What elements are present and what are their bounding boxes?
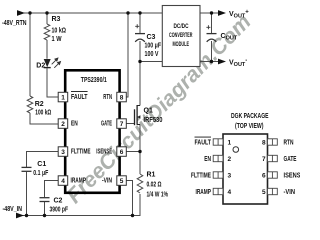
IC U1 TPS2390/1 hot-swap controller body: [65, 70, 119, 193]
svg-text:0.02 Ω: 0.02 Ω: [147, 182, 162, 189]
pin 5 box: [117, 176, 127, 186]
wire R3 to D2: [46, 40, 48, 59]
svg-text:IRF530: IRF530: [144, 117, 163, 124]
svg-text:2: 2: [61, 121, 65, 128]
resistor R1: [137, 174, 143, 193]
wire R3 branch top lead: [46, 13, 48, 24]
DC/DC converter module U2: [162, 6, 200, 67]
capacitor C2: [40, 198, 50, 202]
package pin stub left 2: [213, 155, 223, 161]
svg-text:1/4 W 1%: 1/4 W 1%: [147, 192, 169, 199]
pin 3 box: [58, 147, 67, 157]
svg-text:EN: EN: [71, 120, 78, 127]
wire C1 bottom lead: [26, 172, 28, 216]
svg-text:GATE: GATE: [284, 156, 297, 163]
capacitor C3 polarized: [135, 24, 145, 42]
wire C3 top lead: [139, 13, 141, 33]
svg-text:RTN: RTN: [284, 140, 294, 147]
svg-text:C1: C1: [37, 161, 46, 168]
svg-text:3: 3: [228, 173, 232, 180]
value label C1: [33, 161, 49, 177]
pin 1 box: [58, 92, 67, 102]
node -48V_RTN arrow: [17, 10, 25, 16]
value label R3: [52, 16, 67, 43]
value label C2: [50, 198, 69, 214]
package pin stub right 8: [268, 139, 278, 145]
svg-text:R2: R2: [35, 101, 44, 108]
svg-text:R3: R3: [52, 16, 61, 23]
value label R2: [35, 101, 52, 116]
svg-text:2: 2: [228, 156, 232, 163]
svg-text:DC/DC: DC/DC: [174, 23, 189, 30]
node -48V_IN arrow: [16, 213, 24, 219]
svg-text:VOUT-: VOUT-: [229, 58, 247, 68]
package pin stub left 4: [213, 188, 223, 194]
svg-text:DGK PACKAGE: DGK PACKAGE: [231, 113, 269, 120]
node rail-R3: [45, 11, 48, 14]
wire pin 7 to Q1 gate: [126, 123, 134, 125]
svg-text:EN: EN: [204, 156, 211, 163]
wire top rail -48V_RTN: [17, 12, 162, 14]
svg-text:IRAMP: IRAMP: [196, 189, 212, 196]
package pin stub left 1: [213, 139, 223, 145]
pin 2 box: [58, 119, 67, 129]
svg-text:6: 6: [120, 149, 124, 156]
svg-text:RTN: RTN: [103, 94, 112, 101]
wire pin 8 riser to top rail: [126, 13, 128, 97]
wire pin 3 to C1: [27, 152, 59, 168]
svg-text:6: 6: [262, 173, 266, 180]
resistor R3: [44, 24, 50, 40]
svg-text:3900 pF: 3900 pF: [50, 207, 69, 214]
svg-text:CONVERTER: CONVERTER: [169, 32, 193, 39]
pin 1 indicator circle: [233, 147, 239, 153]
svg-text:4: 4: [228, 189, 232, 196]
node sense: [138, 150, 141, 153]
svg-text:-VIN: -VIN: [284, 189, 296, 196]
wire C3 bottom to module: [140, 41, 162, 62]
svg-text:10 kΩ: 10 kΩ: [52, 28, 67, 35]
node VIN-rail: [131, 214, 134, 217]
svg-text:5: 5: [120, 178, 124, 185]
wire D2 to pin 1: [47, 68, 58, 97]
wire pin 4 to C2: [45, 181, 59, 198]
wire C2 bottom lead: [44, 202, 46, 216]
wire R1 top lead: [139, 152, 141, 175]
svg-text:3: 3: [61, 149, 65, 156]
pin label FAULT: [71, 91, 88, 100]
svg-text:MODULE: MODULE: [173, 41, 190, 48]
svg-text:C3: C3: [147, 34, 156, 41]
svg-text:-48V_IN: -48V_IN: [3, 206, 23, 213]
node rail-R2: [28, 11, 31, 14]
resistor R2: [27, 96, 33, 113]
svg-text:1 W: 1 W: [52, 36, 62, 43]
svg-text:(TOP VIEW): (TOP VIEW): [235, 123, 264, 130]
wire Cout top lead: [211, 13, 213, 33]
svg-text:100 μF: 100 μF: [145, 43, 162, 50]
node VOUT- arrow: [218, 59, 226, 65]
node rail-C3: [138, 11, 141, 14]
svg-text:Q1: Q1: [144, 108, 153, 115]
svg-text:1: 1: [228, 140, 232, 147]
transistor Q1 IRF530: [135, 105, 141, 125]
svg-text:4: 4: [61, 178, 65, 185]
package pin stub right 7: [268, 155, 278, 161]
pin 8 box: [117, 92, 127, 102]
wire Q1 source lead: [139, 125, 141, 152]
svg-text:100 V: 100 V: [145, 51, 159, 58]
svg-text:-VIN: -VIN: [102, 177, 112, 184]
wire pin 5 to bottom rail: [126, 181, 132, 216]
svg-text:FLTTIME: FLTTIME: [71, 148, 91, 155]
svg-text:ISENS: ISENS: [284, 173, 301, 180]
svg-text:1: 1: [61, 94, 65, 101]
wire bottom rail -48V_IN: [17, 215, 141, 217]
value label R1: [147, 172, 169, 199]
capacitor C1: [22, 167, 32, 171]
svg-text:ISENSE: ISENSE: [96, 148, 112, 155]
node C2-rail: [43, 214, 46, 217]
node Cout top: [210, 11, 213, 14]
value label Q1: [144, 108, 163, 125]
svg-text:IRAMP: IRAMP: [71, 177, 87, 184]
package body: [223, 134, 268, 204]
svg-text:FAULT: FAULT: [195, 140, 212, 147]
pin 7 box: [117, 119, 127, 129]
package pin stub right 6: [268, 172, 278, 178]
svg-text:R1: R1: [147, 172, 156, 179]
node rail-RTN: [126, 11, 129, 14]
svg-text:100 kΩ: 100 kΩ: [35, 109, 51, 116]
wire R1 bottom lead: [139, 194, 141, 216]
capacitor Cout polarized: [206, 25, 216, 42]
svg-text:TPS2390/1: TPS2390/1: [81, 77, 107, 84]
package pin stub left 3: [213, 172, 223, 178]
wire Cout bottom lead: [211, 41, 213, 62]
svg-text:8: 8: [120, 94, 124, 101]
wire module out top to VOUT+: [199, 12, 219, 14]
package label FAULT: [195, 137, 212, 146]
wire pin 6 to node: [126, 151, 140, 153]
svg-text:7: 7: [262, 156, 266, 163]
pin 4 box: [58, 176, 67, 186]
wire R2 to pin 2: [30, 113, 58, 124]
svg-text:D2: D2: [36, 63, 45, 70]
node C1-rail: [25, 214, 28, 217]
svg-text:5: 5: [262, 189, 266, 196]
wire Q1 drain riser: [139, 62, 141, 106]
value label C3: [145, 34, 162, 58]
node C3-drain: [138, 60, 141, 63]
svg-text:0.1 μF: 0.1 μF: [33, 170, 49, 177]
svg-text:FAULT: FAULT: [71, 94, 88, 101]
wire R2 branch top lead: [29, 13, 31, 96]
diode D2 LED: [44, 58, 61, 68]
node VOUT+ arrow: [218, 10, 226, 16]
pin 6 box: [117, 147, 127, 157]
node Cout bottom: [210, 60, 213, 63]
svg-text:C2: C2: [54, 198, 63, 205]
package pin stub right 5: [268, 188, 278, 194]
svg-text:-48V_RTN: -48V_RTN: [2, 20, 27, 27]
wire module out bottom to VOUT-: [199, 61, 219, 63]
svg-text:FLTTIME: FLTTIME: [191, 173, 211, 180]
svg-text:8: 8: [262, 140, 266, 147]
svg-text:GATE: GATE: [101, 120, 112, 127]
svg-text:7: 7: [120, 121, 124, 128]
